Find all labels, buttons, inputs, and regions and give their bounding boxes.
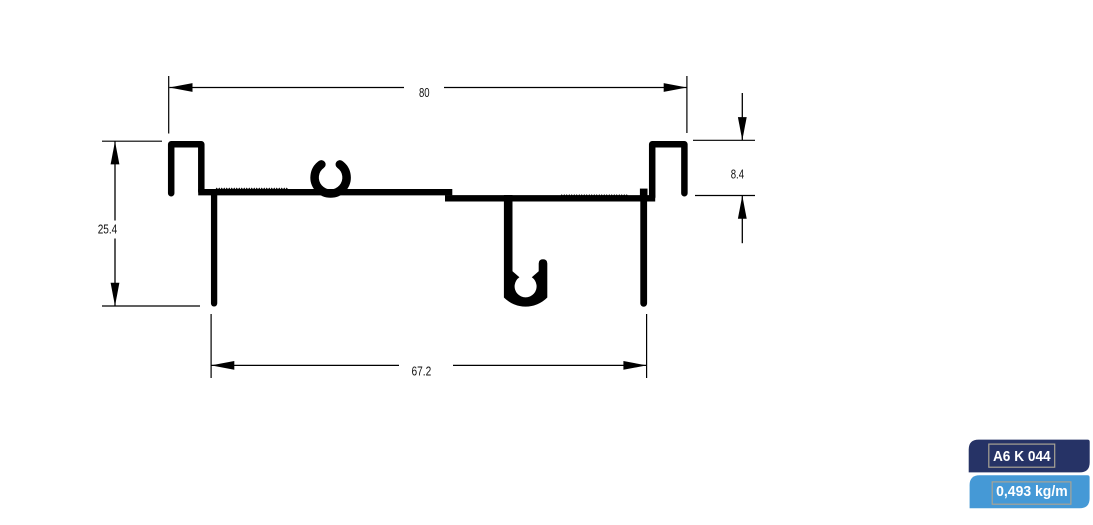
svg-text:0,493 kg/m: 0,493 kg/m: [996, 483, 1068, 500]
svg-text:25.4: 25.4: [98, 222, 118, 237]
dim 67.2: left extension line: [210, 314, 212, 378]
profile left hook: [171, 144, 201, 193]
dim 80: left extension line: [168, 76, 170, 134]
dim 8.4: lower leader line: [741, 196, 743, 244]
svg-text:A6 K 044: A6 K 044: [993, 448, 1051, 465]
knurling left web: [216, 188, 289, 191]
dim 8.4: top extension line: [693, 139, 755, 141]
profile right leg top block: [640, 189, 648, 198]
dim 80: left arrow: [169, 83, 192, 92]
badge A6 K 044 inner border: [989, 444, 1055, 467]
badge 0,493 kg/m inner border: [992, 482, 1071, 504]
dim 67.2: dimension line: [211, 364, 646, 366]
dim 8.4: bottom arrow: [738, 196, 747, 219]
dim 67.2: left arrow: [211, 361, 234, 370]
badge 0,493 kg/m (light blue): [970, 475, 1090, 508]
dim 25.4: bottom arrow: [111, 283, 120, 306]
profile right leg: [640, 195, 647, 303]
dim 67.2: right arrow: [623, 361, 646, 370]
dim 80: right arrow: [664, 83, 687, 92]
dim 25.4: dimension line: [114, 141, 116, 306]
dim 8.4: upper leader line: [741, 93, 743, 140]
svg-text:80: 80: [419, 85, 430, 100]
svg-text:67.2: 67.2: [412, 363, 432, 378]
profile left leg: [211, 192, 217, 303]
profile right hook: [652, 144, 684, 197]
dim 25.4: top arrow: [111, 141, 120, 164]
profile web lower-right section: [445, 195, 655, 201]
dim 25.4: bottom extension line: [102, 305, 200, 307]
top screw port: [315, 164, 347, 193]
dim 80: dimension line: [169, 87, 687, 89]
dim 8.4: bottom extension line: [695, 195, 755, 197]
dim 80: right extension line: [686, 76, 688, 133]
svg-text:8.4: 8.4: [731, 166, 744, 181]
knurling right web: [561, 194, 629, 197]
profile web upper-left section: [198, 189, 452, 195]
dim 25.4: top extension line: [102, 140, 162, 142]
dim 67.2: right extension line: [646, 314, 648, 378]
badge A6 K 044 (navy): [969, 440, 1090, 473]
bottom screw boss with stem: [504, 195, 547, 307]
dim 8.4: top arrow: [738, 117, 747, 140]
